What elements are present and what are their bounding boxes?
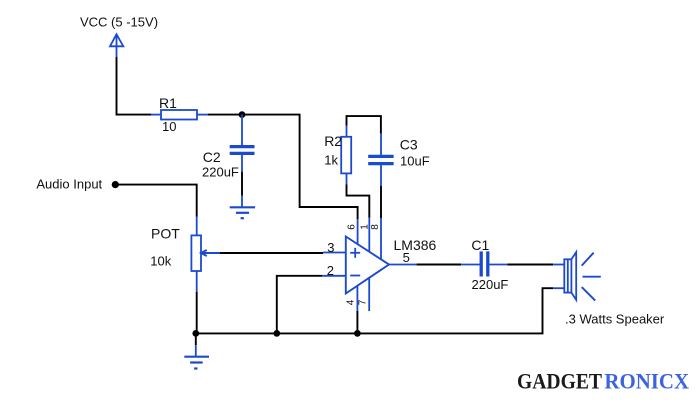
svg-text:220uF: 220uF	[472, 277, 509, 292]
svg-text:2: 2	[327, 263, 334, 278]
svg-text:POT: POT	[151, 225, 180, 241]
svg-text:10: 10	[162, 119, 176, 134]
svg-text:1k: 1k	[324, 152, 338, 167]
op-amp U1 LM386 triangle	[346, 237, 389, 294]
svg-text:GADGET: GADGET	[517, 368, 602, 393]
svg-text:5: 5	[403, 250, 410, 265]
wire Audio Input to POT top	[115, 185, 196, 236]
pin number 4	[345, 299, 356, 305]
label C1	[471, 237, 489, 253]
label Audio Input	[36, 176, 102, 191]
capacitor C3	[368, 134, 393, 186]
svg-text:R1: R1	[159, 95, 177, 111]
value 10k	[150, 254, 171, 269]
label C3	[400, 136, 418, 152]
svg-text:10uF: 10uF	[400, 153, 430, 168]
wire bottom ground rail	[196, 288, 553, 333]
svg-text:8: 8	[370, 224, 381, 230]
potentiometer POT	[191, 235, 220, 271]
resistor R2	[341, 126, 351, 185]
wire R2 top link to C3 top	[347, 116, 381, 134]
op-amp plus input mark	[350, 248, 360, 258]
label R2	[324, 133, 342, 149]
svg-text:Audio Input: Audio Input	[36, 176, 102, 191]
svg-text:RONICX: RONICX	[604, 368, 689, 393]
speaker LS1	[564, 252, 576, 300]
value 10uF	[400, 153, 430, 168]
svg-text:C2: C2	[203, 149, 221, 165]
wire pin 2 to rail	[277, 276, 346, 334]
label .3 Watts Speaker	[565, 311, 665, 326]
svg-text:VCC (5 -15V): VCC (5 -15V)	[80, 15, 158, 30]
wire stub to ground under rail	[195, 333, 197, 356]
pin number 7	[358, 299, 369, 305]
label C2	[203, 149, 221, 165]
value 220uF	[202, 164, 239, 179]
svg-text:C3: C3	[400, 136, 418, 152]
wire pin 4 to rail	[356, 286, 358, 334]
wire C2 to ground	[241, 172, 243, 207]
value 10	[162, 119, 176, 134]
label POT	[151, 225, 180, 241]
op-amp minus input mark	[350, 275, 360, 277]
pin number 2	[327, 263, 334, 278]
wire POT bottom to rail	[196, 271, 198, 333]
junction dot pin4/rail	[354, 330, 361, 337]
wire C1 to speaker	[507, 264, 564, 266]
pin number 3	[327, 240, 334, 255]
pin number 1	[360, 224, 371, 230]
logo GADGETRONICX	[517, 368, 689, 393]
svg-text:R2: R2	[324, 133, 342, 149]
pin number 8	[370, 224, 381, 230]
pin number 5	[403, 250, 410, 265]
wire R1 to junction and corner down to pin6 run	[208, 115, 358, 219]
junction dot POT/ground rail	[192, 330, 199, 337]
node VCC label	[80, 15, 158, 30]
svg-text:C1: C1	[471, 237, 489, 253]
wire speaker bottom lead	[553, 287, 564, 289]
svg-text:7: 7	[358, 299, 369, 305]
speaker sound waves	[582, 253, 601, 301]
VCC power arrow symbol	[110, 34, 123, 57]
node input terminal dot	[112, 181, 119, 188]
wire VCC vertical to R1	[117, 57, 152, 115]
svg-text:LM386: LM386	[394, 237, 437, 253]
capacitor C2	[230, 115, 255, 172]
value 220uF	[472, 277, 509, 292]
capacitor C1	[461, 251, 507, 276]
svg-text:3: 3	[327, 240, 334, 255]
wire POT wiper to pin 3	[220, 252, 346, 255]
label R1	[159, 95, 177, 111]
svg-text:6: 6	[347, 224, 358, 230]
pin number 6	[347, 224, 358, 230]
svg-text:1: 1	[360, 224, 371, 230]
value 1k	[324, 152, 338, 167]
junction dot pin2/rail	[273, 330, 280, 337]
svg-text:4: 4	[345, 299, 356, 305]
resistor R1	[151, 110, 208, 120]
svg-text:.3 Watts Speaker: .3 Watts Speaker	[565, 311, 665, 326]
wire pin 6 blue stub	[357, 219, 359, 244]
svg-text:10k: 10k	[150, 254, 171, 269]
junction dot at R1/C2 node	[239, 111, 246, 118]
wire C3 bottom to pin 8	[380, 186, 382, 260]
label LM386	[394, 237, 437, 253]
svg-text:220uF: 220uF	[202, 164, 239, 179]
wire output pin 5 to C1	[389, 264, 461, 266]
wire pin 7 stub floating	[368, 278, 370, 311]
ground below POT rail	[184, 357, 209, 369]
wire R2 bottom to pin 1	[347, 185, 370, 252]
ground below C2	[230, 207, 255, 218]
